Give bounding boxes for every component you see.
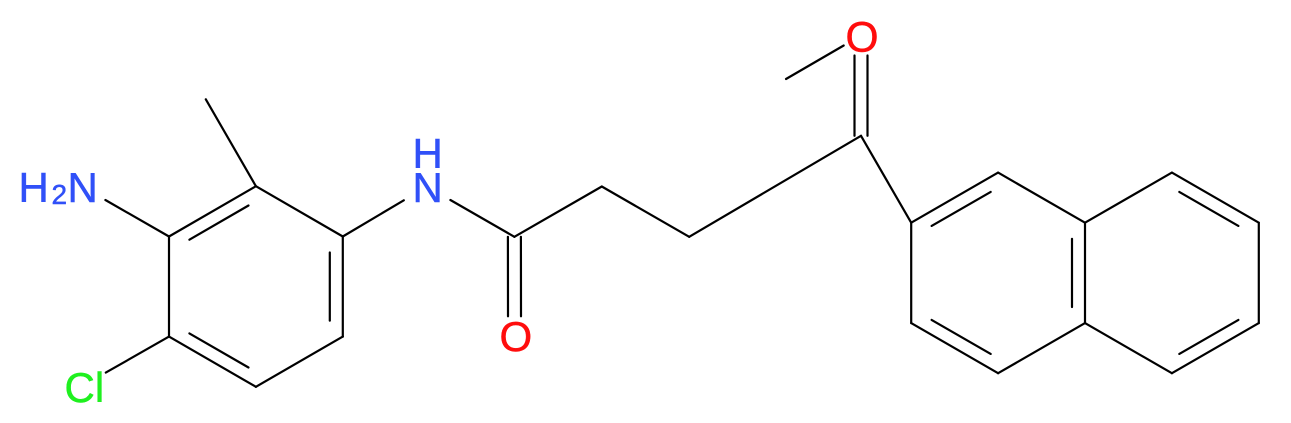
bond C2-CH3 methyl (206, 99, 256, 186)
bond ring3 UR-LR (1258, 223, 1260, 323)
bond CH2-CH2 (602, 187, 689, 237)
bond ring2 UL-top (911, 173, 998, 223)
bond O-CH3 (line into ketone O from lower-left, as drawn) (786, 46, 844, 80)
bond ring2 LR-bottom (998, 323, 1085, 373)
double bond inner line ring2 UR=LR (1071, 239, 1073, 307)
bond ring2 bottom-LL (911, 323, 998, 373)
double bond inner line ring3 top=UR (1179, 192, 1238, 226)
bond ring3 LR-bottom (1172, 323, 1259, 373)
double bond inner line C4=C5 (189, 333, 248, 367)
bond ring2 UR-LR shared (1084, 223, 1086, 323)
bond C1-N amide (343, 200, 404, 236)
bond C5-C6 (ring1) (256, 337, 343, 387)
bond ring2 top-UR (998, 173, 1085, 223)
svg-text:O: O (500, 313, 533, 360)
bond C6-C1 (ring1) (342, 237, 344, 337)
bond ring3 UL-top (1085, 173, 1172, 223)
svg-text:H: H (19, 164, 49, 211)
bond N-C carbonyl (450, 200, 514, 237)
label NH (amide nitrogen) (413, 130, 443, 211)
double bond inner line C2=C3 (189, 206, 248, 240)
svg-text:O: O (846, 15, 879, 62)
bond C4-C5 (ring1) (169, 337, 256, 387)
svg-text:Cl: Cl (65, 364, 105, 411)
double bond C=O ketone line b (853, 56, 855, 136)
label H2N (amine nitrogen) (19, 164, 98, 211)
double bond C=O amide line a (507, 237, 509, 316)
bond C ketone to naphthalene C2' (861, 136, 911, 223)
double bond C=O ketone line a (866, 56, 868, 136)
bond C1-C2 (ring1) (256, 186, 343, 236)
svg-text:N: N (413, 164, 443, 211)
double bond inner line C6=C1 (329, 253, 331, 321)
bond CH2-C ketone (through colinear CH2) (689, 136, 861, 237)
bond C3-NH2 (105, 200, 169, 237)
svg-text:2: 2 (52, 179, 68, 210)
double bond C=O amide line b (520, 237, 522, 316)
bond ring2 LL-UL (910, 223, 912, 323)
svg-text:N: N (68, 164, 98, 211)
double bond inner line ring2 UL=top (932, 192, 991, 226)
bond C4-Cl (106, 337, 169, 373)
double bond inner line ring2 bottom=LL (932, 320, 991, 354)
bond C-CH2 (514, 187, 601, 237)
bond ring3 bottom-LL (1085, 323, 1172, 373)
double bond inner line ring3 LR=bottom (1179, 320, 1238, 354)
bond ring3 top-UR (1172, 173, 1259, 223)
bond C2-C3 (ring1) (169, 186, 256, 236)
bond C3-C4 (ring1) (168, 237, 170, 337)
